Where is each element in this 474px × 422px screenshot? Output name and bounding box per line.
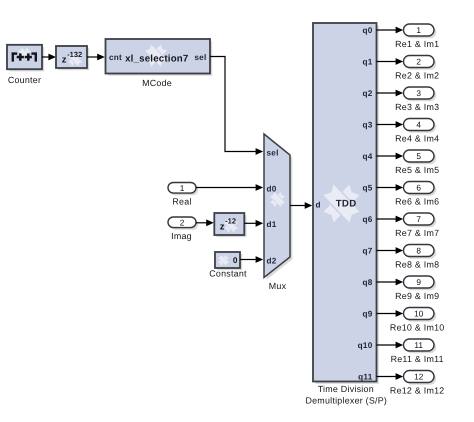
svg-text:Re2 & Im2: Re2 & Im2 — [395, 70, 439, 80]
svg-text:q9: q9 — [362, 309, 372, 318]
svg-text:Time Division: Time Division — [318, 384, 374, 394]
input port 2 Imag — [168, 217, 198, 230]
svg-text:6: 6 — [416, 182, 421, 192]
wire Real to Mux d0 — [196, 187, 256, 189]
svg-text:5: 5 — [416, 151, 421, 161]
svg-text:Counter: Counter — [8, 75, 41, 85]
svg-text:4: 4 — [416, 119, 421, 129]
wire q3 to output port 4 — [377, 124, 397, 126]
wire q11 to output port 12 — [377, 376, 397, 378]
svg-text:7: 7 — [416, 214, 421, 224]
svg-text:Re7 & Im7: Re7 & Im7 — [395, 228, 439, 238]
output port 2 — [404, 56, 437, 70]
wire q6 to output port 7 — [377, 218, 397, 220]
output port 8 — [404, 245, 437, 259]
svg-text:q7: q7 — [362, 246, 372, 255]
svg-text:Mux: Mux — [269, 281, 287, 291]
svg-text:d1: d1 — [267, 220, 277, 229]
svg-text:11: 11 — [414, 340, 423, 350]
svg-text:TDD: TDD — [336, 199, 357, 210]
svg-text:2: 2 — [416, 56, 421, 66]
svg-text:1: 1 — [180, 183, 185, 193]
wire q1 to output port 2 — [377, 61, 397, 63]
svg-text:Imag: Imag — [171, 231, 192, 241]
svg-text:q2: q2 — [362, 89, 372, 98]
svg-text:q0: q0 — [362, 26, 372, 35]
wire q4 to output port 5 — [377, 155, 397, 157]
svg-text:Real: Real — [172, 197, 191, 207]
delay block z^-132 — [56, 46, 89, 70]
output port 7 — [404, 213, 437, 227]
svg-text:0: 0 — [233, 256, 238, 265]
wire q9 to output port 10 — [377, 313, 397, 315]
output port 4 — [404, 119, 437, 133]
delay block z^-12 — [214, 213, 246, 237]
svg-text:Re9 & Im9: Re9 & Im9 — [395, 291, 439, 301]
wire Imag to z-12 delay — [196, 222, 207, 224]
counter block Counter — [7, 45, 44, 72]
wire Counter to z-132 delay — [42, 56, 50, 58]
wire q0 to output port 1 — [377, 29, 397, 31]
svg-text:q3: q3 — [362, 120, 372, 129]
svg-text:q10: q10 — [358, 341, 373, 350]
wire q5 to output port 6 — [377, 187, 397, 189]
svg-text:-12: -12 — [225, 217, 236, 226]
svg-text:MCode: MCode — [142, 78, 172, 88]
svg-text:8: 8 — [416, 245, 421, 255]
svg-text:q8: q8 — [362, 278, 372, 287]
output port 9 — [404, 276, 437, 290]
svg-text:Re12 & Im12: Re12 & Im12 — [390, 385, 445, 395]
wire Constant to Mux d2 — [240, 259, 256, 261]
svg-text:Constant: Constant — [209, 268, 247, 278]
input port 1 Real — [168, 183, 198, 196]
svg-text:Re10 & Im10: Re10 & Im10 — [390, 322, 445, 332]
svg-text:sel: sel — [267, 148, 279, 157]
svg-text:2: 2 — [180, 217, 185, 227]
MCode block xl_selection7 — [106, 39, 213, 76]
wire Mux to TDD d — [290, 205, 305, 207]
wire q10 to output port 11 — [377, 344, 397, 346]
output port 11 — [404, 339, 437, 353]
svg-text:10: 10 — [414, 308, 424, 318]
constant block Constant value 0 — [215, 252, 242, 270]
svg-text:q6: q6 — [362, 215, 372, 224]
wire q7 to output port 8 — [377, 250, 397, 252]
svg-text:Re5 & Im5: Re5 & Im5 — [395, 165, 439, 175]
svg-text:Re3 & Im3: Re3 & Im3 — [395, 102, 439, 112]
svg-text:Re6 & Im6: Re6 & Im6 — [395, 196, 439, 206]
svg-text:Re11 & Im11: Re11 & Im11 — [391, 354, 444, 364]
mux block Mux — [264, 134, 292, 280]
output port 10 — [404, 308, 437, 322]
svg-text:q5: q5 — [362, 183, 372, 192]
output port 12 — [404, 371, 437, 385]
wire z-12 delay to Mux d1 — [244, 222, 256, 224]
svg-text:d2: d2 — [267, 256, 277, 265]
svg-text:9: 9 — [416, 277, 421, 287]
wire MCode sel to Mux sel — [210, 57, 256, 152]
svg-text:Re8 & Im8: Re8 & Im8 — [395, 259, 439, 269]
svg-text:q11: q11 — [358, 372, 373, 381]
svg-text:Re4 & Im4: Re4 & Im4 — [395, 133, 439, 143]
wire z-132 delay to MCode cnt — [87, 56, 98, 58]
svg-text:q4: q4 — [362, 152, 372, 161]
svg-text:12: 12 — [414, 371, 424, 381]
svg-text:3: 3 — [416, 88, 421, 98]
wire q8 to output port 9 — [377, 281, 397, 283]
output port 6 — [404, 182, 437, 196]
svg-text:z: z — [220, 221, 225, 232]
wire q2 to output port 3 — [377, 92, 397, 94]
svg-text:Demultiplexer (S/P): Demultiplexer (S/P) — [305, 396, 387, 406]
output port 5 — [404, 150, 437, 164]
svg-text:-132: -132 — [67, 50, 82, 59]
output port 1 — [404, 24, 437, 38]
svg-text:cnt: cnt — [109, 53, 122, 62]
svg-text:1: 1 — [416, 25, 421, 35]
svg-text:xl_selection7: xl_selection7 — [125, 54, 188, 65]
svg-text:d: d — [316, 201, 321, 210]
svg-text:q1: q1 — [362, 57, 372, 66]
svg-text:Re1 & Im1: Re1 & Im1 — [395, 39, 439, 49]
svg-text:d0: d0 — [267, 184, 277, 193]
svg-text:sel: sel — [194, 53, 206, 62]
TDD block Time Division Demultiplexer — [313, 23, 379, 384]
output port 3 — [404, 87, 437, 101]
svg-text:z: z — [62, 54, 67, 65]
